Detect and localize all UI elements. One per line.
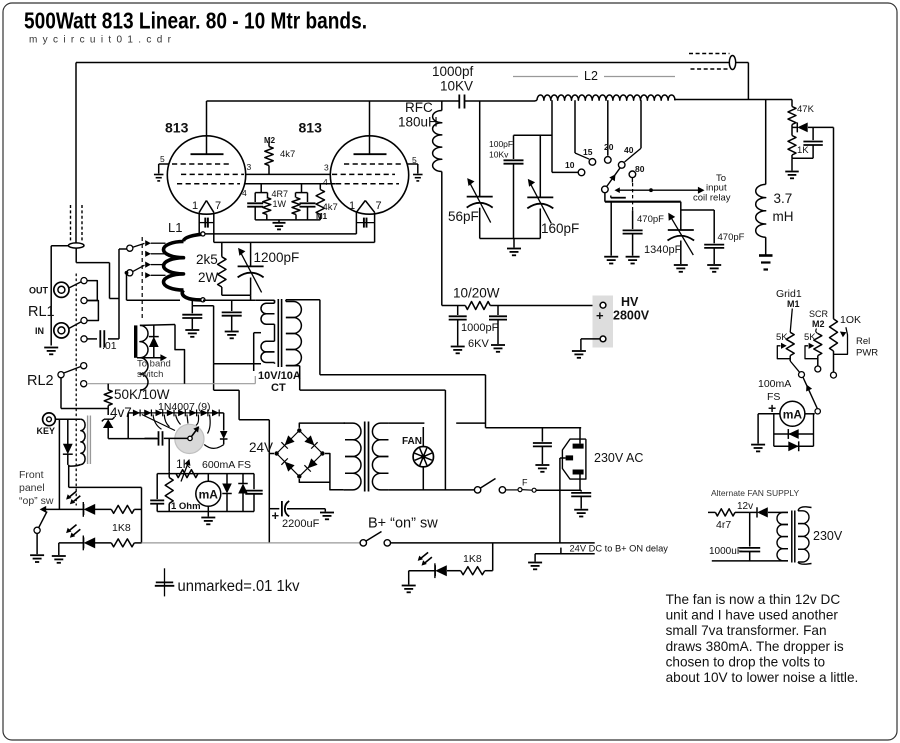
wire L2 tap 40 [625,100,642,162]
capacitor 470pF right [681,210,724,264]
tube V2 pin1 label [349,200,355,212]
label 160pF [541,221,579,236]
switch RL1 contact c1 [81,278,87,284]
wire led2 left [59,543,83,555]
wire cap left [145,437,152,439]
wire meter2 right [805,409,821,414]
resistor 50K/10W [104,384,112,409]
label HV plus [596,308,604,323]
label 56pF [448,209,479,224]
ground grid network [273,220,286,230]
wire RL1 c2 c3 loop [87,301,98,321]
wire antenna drop [747,63,749,100]
svg-text:M2: M2 [264,136,276,145]
wire B+ left [142,542,361,544]
svg-text:1000pf: 1000pf [432,64,474,79]
svg-text:10V/10A: 10V/10A [258,370,301,382]
svg-text:10/20W: 10/20W [453,286,500,301]
wire led3 left [409,571,435,585]
svg-text:1W: 1W [273,199,287,209]
switch band contact 40 [618,162,625,169]
svg-text:47K: 47K [797,104,815,115]
wire 100pF link [514,134,553,136]
label SCR M2 [812,319,825,329]
capacitor 1000uF [739,512,760,561]
label L1 [168,220,182,235]
svg-text:5K: 5K [776,332,788,343]
svg-text:mH: mH [773,209,794,224]
label T1 10V/10A [258,370,301,382]
label 470pF right [718,232,745,243]
svg-text:813: 813 [165,120,189,136]
tube V1 filament legs [199,212,214,242]
diode meter1 a [222,474,232,512]
node L1 contact B [125,271,129,275]
svg-text:470pF: 470pF [637,214,664,225]
svg-text:Front: Front [19,469,44,481]
wire 10K feed [833,127,835,319]
switch RL1 contact c2 [81,297,87,303]
transformer T2 left [344,423,361,490]
inductor RFC 180uH [433,101,442,306]
svg-text:RFC: RFC [405,100,433,115]
resistor 1K right [788,127,796,158]
svg-text:IN: IN [35,326,44,336]
label L2 [584,69,598,83]
label 2W [198,270,219,285]
switch L1 tap contact B [127,270,133,276]
tube V2 grid g1 [336,183,399,185]
label op sw [19,495,54,507]
svg-text:1000pF: 1000pF [461,322,499,334]
tube V1 pin4 label [242,188,247,198]
label 1K8 [112,522,131,534]
capacitor tank bypass left [182,300,213,329]
switch RL2 pivot [58,372,64,378]
label Grid1 M1 [787,299,800,309]
tube V2 grid g3 [344,163,404,165]
wire top rail [76,63,729,244]
tube V2 filament legs [356,212,374,242]
LED D2 [66,525,95,551]
wire led3 riser [492,543,494,571]
svg-text:4: 4 [323,177,328,187]
wire meter1 top [157,473,254,475]
label meter2 plus [768,400,776,416]
capacitor 100pF 10Kv [504,135,524,238]
svg-text:F: F [522,478,528,488]
svg-text:4r7: 4r7 [716,519,731,531]
mech link band gang [632,183,634,211]
capacitor 1000pF 6KV left [449,306,467,346]
label L2 line left [513,76,578,78]
wire chain end [219,413,224,431]
capacitor 2200uF [269,501,325,516]
wire meter2 left [758,414,780,444]
svg-text:40: 40 [624,145,634,155]
svg-text:56pF: 56pF [448,209,479,224]
rotary switch disc [175,424,204,453]
svg-text:L1: L1 [168,220,182,235]
wire iec bottom pin [579,475,581,491]
coax stub [68,205,84,248]
note fan paragraph [666,592,859,685]
label 100pF [489,139,513,149]
svg-text:KEY: KEY [37,426,56,436]
label 100mA [758,378,791,390]
ground led2 [52,556,66,563]
connector KEY [43,413,56,426]
wire rotor feed [168,439,170,472]
diode scr feed [792,122,834,132]
switch RL1 contact c3 [81,317,87,323]
wire relay out [69,465,142,488]
wire T2 right top [388,422,424,424]
ground hv right [491,345,505,352]
svg-text:+: + [596,308,604,323]
wire plate rail [207,100,536,102]
mech link RL1 RL2 [75,274,77,505]
ground tank left [185,330,199,337]
tube V2 pin7 label [376,200,382,212]
label To band [137,359,171,370]
label band 10 [565,160,575,170]
wire B+ right [391,542,595,544]
fuse F [518,478,536,493]
inductor L1 taps [145,240,165,278]
wire led2 res [95,542,111,544]
wire bridge right [325,454,344,490]
resistor M1 4k7 [316,184,324,220]
label coil relay [693,193,731,204]
tube V1 pin1 label [192,200,198,212]
wire plate line right [674,99,792,101]
wire mains stub [456,422,485,424]
svg-text:B+ “on” sw: B+ “on” sw [368,516,438,532]
switch band contact 10 [578,169,585,176]
capacitor scr filter [792,127,823,158]
node L1 top [201,232,205,236]
capacitor .01 [87,330,119,347]
svg-text:1: 1 [349,200,355,212]
label 1W [273,199,287,209]
svg-text:4: 4 [242,188,247,198]
svg-text:50K/10W: 50K/10W [114,387,170,402]
svg-text:mA: mA [199,487,219,501]
resistor 1K8 c [461,567,485,575]
label 47K [797,104,815,115]
wire key [55,418,80,420]
wire RL1 c1 c2 loop [87,281,97,301]
label 2800V [613,309,650,323]
capacitor chain coupling [151,431,188,445]
label SCR [809,309,829,319]
wire band 80 stub [631,178,633,183]
connector OUT [54,282,69,297]
ground delay [528,563,542,570]
wire tank rail [203,299,256,301]
svg-text:1K8: 1K8 [112,522,131,534]
switch band contact 20 [605,157,612,164]
rotary tap fan [142,415,224,449]
capacitor 1000pf 10KV [459,95,464,109]
resistor 4r7 [708,509,750,516]
svg-text:.01: .01 [102,340,117,352]
fan motor [413,427,433,490]
switch L1 tap arm A [133,243,145,247]
capacitor 56pF [467,101,493,239]
label 1000uF [709,546,743,557]
tube V1 pin5 wire [159,164,169,174]
svg-text:5K: 5K [804,332,816,343]
label 2200uF plus [272,508,280,523]
wire coax center [76,248,119,298]
transformer T3 coil [140,325,148,390]
label 1000pf [432,64,474,79]
ground tube V1 g3 [154,175,164,181]
switch meter sel B [815,366,821,372]
wire loading bus [605,201,681,203]
ground 1K right [785,158,799,178]
capacitor 1200pF [238,242,264,295]
svg-text:OUT: OUT [29,286,49,296]
tube V2 pin3 label [324,163,329,173]
switch B+ on [360,532,390,547]
inductor L1 [164,234,202,300]
rotary wiper [188,426,199,440]
label 180uH [398,115,438,130]
protection diode box [774,414,814,447]
ground tube V2 g3 [413,175,423,181]
svg-text:L2: L2 [584,69,598,83]
wire led riser [141,487,143,543]
svg-text:To band: To band [137,359,171,370]
pot 10K wiper [834,327,848,354]
svg-text:1OK: 1OK [840,314,861,326]
svg-text:10KV: 10KV [440,79,473,94]
switch mains [474,479,505,494]
resistor M2 4k7 [265,142,273,175]
tube V1 plate [191,101,224,154]
mech link L1 bandswitch [141,237,143,319]
svg-text:unit and I have used another: unit and I have used another [666,608,839,623]
wire xfmr sec top lead [256,300,275,302]
wire fan supply bottom [712,560,788,562]
diode chain end [220,431,228,445]
svg-text:unmarked=.01 1kv: unmarked=.01 1kv [178,578,300,595]
wire led3 res [447,570,461,572]
pot 5K grid wiper [777,343,790,359]
label To [716,173,726,184]
transformer T1 secondary [254,300,275,371]
wire cathode rail B [214,241,375,243]
label 4R7 [272,189,289,199]
switch RL1 contact c4 [81,336,87,342]
svg-text:3.7: 3.7 [774,191,793,206]
switch band contact 15 [589,159,596,166]
wire L1 contact A feed [119,249,127,339]
wire T2 right bottom [388,489,474,491]
node input coil relay [649,188,653,192]
tube V2 grid g2 [332,173,395,175]
label band 80 [635,164,645,174]
resistor 1K8 b [111,539,134,547]
label 1K right [797,145,809,156]
wire CT staircase [214,364,270,543]
wire op ground [36,533,38,554]
diode meter1 b [238,474,248,512]
capacitor unmarked legend [155,568,175,596]
wire cathode rail A [199,233,356,235]
switch RL1 pole2 arm [69,322,81,329]
wire T3 top [140,325,185,384]
tube V1 grid g2 [181,173,244,175]
wire meter1 bottom [157,511,254,513]
diode fan supply [757,507,777,517]
svg-text:M2: M2 [812,319,825,329]
ground 1340pF [674,265,688,272]
capacitor 1000pF 6KV right [489,306,507,345]
wire mains live [320,375,581,428]
svg-text:The fan is now a thin 12v DC: The fan is now a thin 12v DC [666,592,841,607]
label RL1 [28,304,55,320]
switch band contact 80 [629,171,636,178]
wire L2 tap 20 [607,100,609,156]
label PWR [856,348,878,359]
tube V2 filament [356,201,374,213]
label 10K [840,314,861,326]
svg-text:1K: 1K [797,145,809,156]
switch L1 tap arm B [133,265,145,271]
label Front [19,469,44,481]
svg-text:3: 3 [324,163,329,173]
label band 40 [624,145,634,155]
resistor 1 Ohm [165,478,173,512]
svg-text:7: 7 [215,200,221,212]
potentiometer 10K [830,319,838,372]
switch band rotor2 [611,196,626,198]
label KEY [37,426,56,436]
ground HV [572,351,586,358]
wire grid network bus [255,219,320,221]
switch band rotor [602,186,609,193]
svg-text:CT: CT [271,382,286,394]
capacitor meter1 right [245,474,262,512]
wire RL2 keyline [87,383,256,385]
svg-text:coil relay: coil relay [693,193,731,204]
tube V1 filament [199,201,214,213]
switch RL2 contact up [81,363,87,369]
wire L2 tap 15 [575,100,589,159]
ground 3.7mH [759,256,773,270]
transformer T1 primary [286,300,302,366]
wire bridge bottom [299,479,330,482]
capacitor 1340pF [668,202,695,264]
label Rel [856,336,870,347]
label Grid1 [776,288,802,300]
capacitor 470pF left [623,211,643,256]
wire tune cap rail [480,238,541,240]
wire T1 primary bottom [286,366,300,390]
ground RL1 [44,348,58,355]
tube V2 pin5 wire [408,164,418,174]
label 2200uF [282,518,320,530]
ground led3 [402,586,416,593]
svg-text:1 Ohm: 1 Ohm [171,501,201,512]
wire fuse [506,489,518,491]
wire L2 right [673,99,675,101]
label 4v7 [110,405,132,420]
svg-text:about 10V to lower noise a lit: about 10V to lower noise a little. [666,670,859,685]
label 12v [737,501,753,512]
ground tune caps [507,239,521,256]
switch RL2 arm [64,367,81,374]
label L2 line right [604,76,675,78]
svg-text:180uH: 180uH [398,115,438,130]
title text [24,8,367,34]
label band 20 [604,142,614,152]
label 5K scr [804,332,816,343]
LED D3 [418,552,447,578]
label RFC [405,100,433,115]
label 4r7 [716,519,731,531]
label M2 [264,136,276,145]
label B+ on sw [368,516,438,532]
rectifier bridge [274,428,324,478]
svg-text:FAN: FAN [402,436,422,447]
LED D1 [66,491,95,517]
svg-text:470pF: 470pF [718,232,745,243]
label band 15 [583,147,593,157]
capacitor tank bypass right [222,300,242,330]
potentiometer 5K scr [814,334,822,367]
capacitor mains filter [533,428,552,464]
label input [706,183,727,194]
svg-text:500Watt 813 Linear. 80 - 10 M: 500Watt 813 Linear. 80 - 10 Mtr bands. [24,8,367,34]
wire 1k8a up [134,508,141,510]
svg-text:2800V: 2800V [613,309,650,323]
filename label [29,35,172,46]
diode T3 [149,325,159,358]
wire 12v node [750,511,757,513]
ground loading left [604,257,618,264]
svg-text:230V: 230V [813,529,843,543]
zener 4v7 [102,409,115,439]
wire loading left drop [610,202,612,256]
connector IN [54,323,69,338]
transformer T4 primary [777,512,788,560]
transformer T2 core [365,422,369,492]
label 1200pF [254,250,300,265]
svg-text:1200pF: 1200pF [254,250,300,265]
capacitor unmarked meter [150,474,164,512]
wire zener bottom [108,438,158,440]
relay RL core [88,416,91,465]
label 10Kv [489,150,509,160]
wire L1 contact B drop [127,273,181,300]
svg-text:small 7va transformer. Fan: small 7va transformer. Fan [666,623,827,638]
svg-text:1: 1 [192,200,198,212]
svg-text:draws 380mA. The dropper is: draws 380mA. The dropper is [666,639,844,654]
tube V1 pin7 label [215,200,221,212]
capacitor iec ground [571,490,591,509]
svg-text:4k7: 4k7 [280,149,295,160]
tube V1 pin3 label [247,162,252,172]
ground 470pF right [707,265,721,272]
svg-text:SCR: SCR [809,309,829,319]
relay RL coil [69,419,85,466]
label OUT [29,286,49,296]
